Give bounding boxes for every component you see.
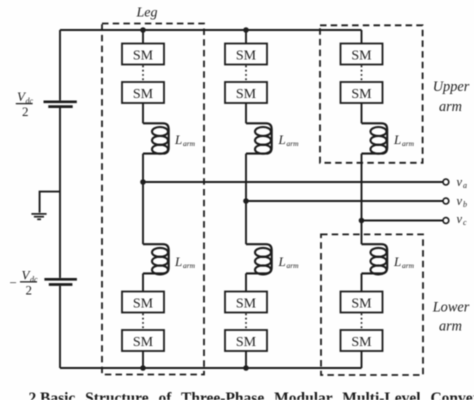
svg-text:v: v: [457, 175, 463, 189]
wire ground stub: [40, 192, 60, 213]
label vb: [457, 194, 468, 209]
label vc: [457, 212, 468, 227]
dotted link leg1 lower: [142, 314, 144, 330]
SM module leg2 lower #2: [225, 330, 267, 351]
svg-text:SM: SM: [133, 87, 154, 102]
junction leg2-top: [243, 27, 249, 33]
inductor Larm leg1 upper: [143, 123, 169, 153]
label Larm leg2 upper: [278, 132, 300, 148]
SM module leg2 lower #1: [225, 292, 267, 313]
svg-text:L: L: [174, 254, 182, 269]
battery V1 (Vdc/2 upper source): [44, 102, 77, 107]
svg-text:SM: SM: [236, 49, 257, 64]
svg-text:arm: arm: [439, 319, 462, 335]
label Larm leg1 upper: [174, 132, 196, 148]
SM module leg3 lower #1: [341, 292, 383, 313]
svg-text:c: c: [463, 218, 467, 227]
dashed box Upper arm (phase c upper arm outline): [320, 25, 423, 163]
SM module leg3 upper #1: [341, 44, 383, 65]
svg-text:v: v: [457, 194, 463, 208]
label Vdc/2 (upper): [17, 89, 34, 119]
wire leg2 SM4 to bottom bus: [245, 351, 247, 368]
battery V2 (-Vdc/2 lower source): [44, 279, 77, 284]
wire leg3 coil to SM3: [361, 273, 363, 291]
svg-text:arm: arm: [183, 261, 196, 270]
junction leg1 mid (node a): [140, 179, 146, 185]
dotted link leg2 lower: [245, 314, 247, 330]
svg-text:SM: SM: [236, 297, 257, 312]
dotted link leg2 upper: [245, 66, 247, 82]
svg-text:arm: arm: [439, 99, 462, 115]
svg-text:2: 2: [26, 283, 33, 298]
wire bottom DC bus: [60, 367, 362, 369]
inductor Larm leg2 upper: [246, 123, 272, 153]
junction leg1-bottom: [140, 365, 146, 371]
svg-text:2: 2: [22, 104, 29, 119]
dashed box Lower arm (phase c lower arm outline): [321, 234, 423, 375]
wire leg1 coil to mid: [142, 154, 144, 245]
wire leg1 SM4 to bottom bus: [142, 351, 144, 368]
svg-text:SM: SM: [351, 87, 372, 102]
junction leg3 mid (node c): [359, 218, 365, 224]
svg-text:L: L: [278, 132, 286, 147]
wire left DC bus (with battery gaps): [59, 30, 61, 368]
wire AC output a: [143, 181, 443, 183]
wire leg2 top drop: [245, 30, 247, 44]
wire leg3 SM4 to bottom bus: [361, 351, 363, 368]
junction leg2-bottom: [243, 365, 249, 371]
wire top DC bus: [60, 29, 362, 31]
label Larm leg3 upper: [393, 132, 415, 148]
svg-text:L: L: [174, 132, 182, 147]
fraction bar (upper label): [16, 103, 33, 105]
dotted link leg3 upper: [361, 66, 363, 82]
inductor Larm leg1 lower: [143, 244, 169, 274]
svg-text:2.: 2.: [29, 390, 41, 400]
svg-text:arm: arm: [287, 261, 300, 270]
svg-text:SM: SM: [351, 297, 372, 312]
label Larm leg1 lower: [174, 254, 196, 270]
wire leg2 coil to mid: [245, 154, 247, 245]
wire AC output b: [246, 200, 443, 202]
svg-text:a: a: [463, 181, 467, 190]
svg-text:Leg: Leg: [136, 5, 158, 20]
wire leg1 top drop: [142, 30, 144, 44]
SM module leg1 upper #2: [122, 82, 164, 103]
svg-text:Upper: Upper: [433, 79, 470, 95]
SM module leg1 upper #1: [122, 44, 164, 65]
caption (cut off at bottom edge): [29, 390, 474, 400]
wire leg2 SM2 to coil: [245, 103, 247, 123]
wire leg3 top drop: [361, 30, 363, 44]
label Larm leg2 lower: [278, 254, 300, 270]
svg-text:SM: SM: [236, 335, 257, 350]
label va: [457, 175, 468, 190]
terminal vc: [443, 218, 449, 224]
svg-text:L: L: [278, 254, 286, 269]
label -Vdc/2 (lower): [10, 268, 39, 298]
label Lower arm: [432, 300, 470, 335]
svg-text:arm: arm: [287, 139, 300, 148]
SM module leg3 upper #2: [341, 82, 383, 103]
dotted link leg3 lower: [361, 314, 363, 330]
label Upper arm: [433, 79, 470, 115]
wire leg3 SM2 to coil: [361, 103, 363, 123]
inductor Larm leg2 lower: [246, 244, 272, 274]
svg-text:arm: arm: [183, 139, 196, 148]
svg-text:arm: arm: [402, 261, 415, 270]
terminal va: [443, 179, 449, 185]
svg-text:SM: SM: [133, 297, 154, 312]
wire AC output c: [362, 220, 444, 222]
SM module leg2 upper #2: [225, 82, 267, 103]
wire leg1 SM2 to coil: [142, 103, 144, 123]
svg-text:v: v: [457, 212, 463, 226]
inductor Larm leg3 lower: [362, 244, 388, 274]
terminal vb: [443, 198, 449, 204]
svg-text:L: L: [393, 254, 401, 269]
junction leg1-top: [140, 27, 146, 33]
svg-text:SM: SM: [351, 49, 372, 64]
svg-text:SM: SM: [133, 335, 154, 350]
SM module leg1 lower #2: [122, 330, 164, 351]
svg-text:SM: SM: [351, 335, 372, 350]
svg-text:SM: SM: [133, 49, 154, 64]
SM module leg2 upper #1: [225, 44, 267, 65]
wire leg2 coil to SM3: [245, 273, 247, 291]
inductor Larm leg3 upper: [362, 123, 388, 153]
svg-text:Lower: Lower: [432, 300, 470, 316]
SM module leg3 lower #2: [341, 330, 383, 351]
svg-text:SM: SM: [236, 87, 257, 102]
dashed box Leg (phase leg outline): [102, 24, 204, 375]
svg-text:Basic Structure of Three-Phase: Basic Structure of Three-Phase Modular M…: [40, 390, 474, 400]
svg-text:b: b: [463, 200, 467, 209]
svg-text:L: L: [393, 132, 401, 147]
junction leg2 mid (node b): [243, 198, 249, 204]
dotted link leg1 upper: [142, 66, 144, 82]
wire leg1 coil to SM3: [142, 273, 144, 291]
wire leg3 coil to mid: [361, 154, 363, 245]
ground: [31, 214, 46, 219]
label Larm leg3 lower: [393, 254, 415, 270]
SM module leg1 lower #1: [122, 292, 164, 313]
svg-text:−: −: [10, 275, 17, 290]
fraction bar (lower label): [20, 281, 37, 283]
svg-text:arm: arm: [402, 139, 415, 148]
